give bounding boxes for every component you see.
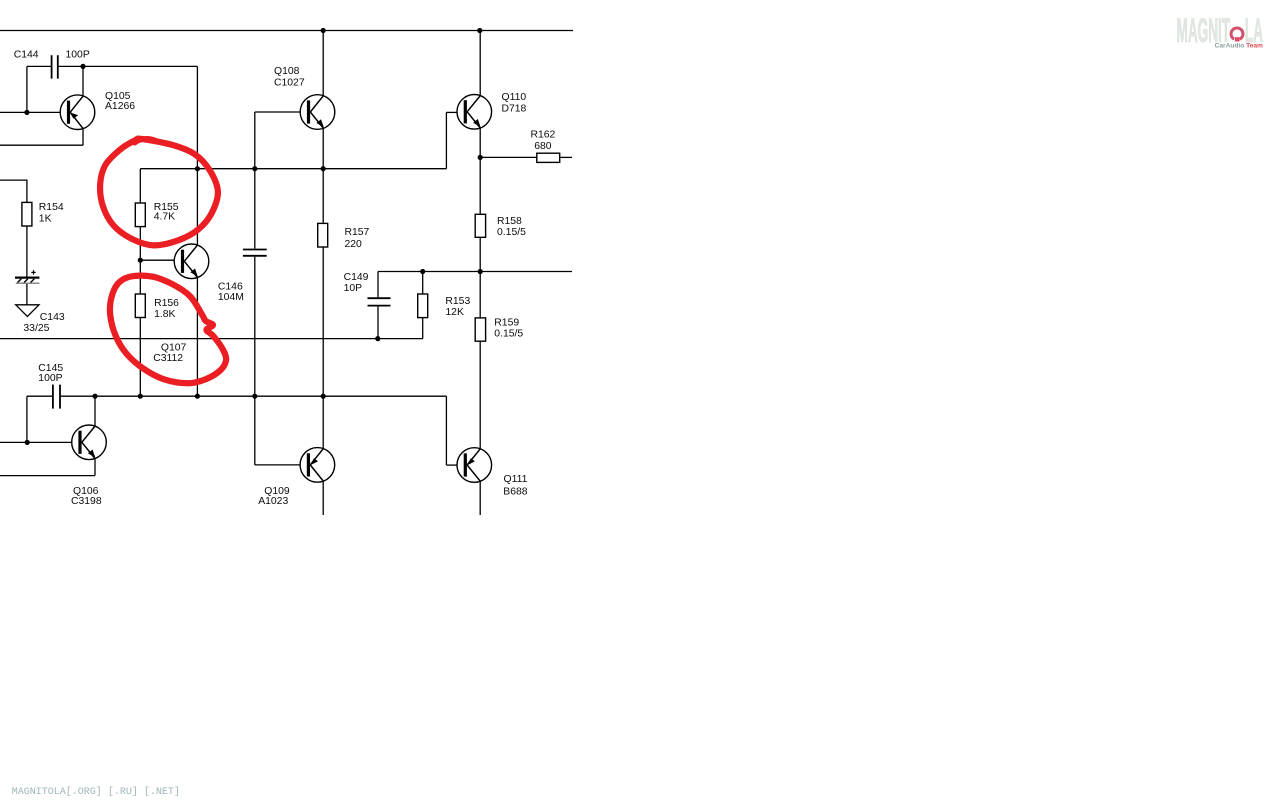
ground symbol (16, 305, 39, 317)
junction top rail at Q108 (321, 28, 326, 33)
svg-text:R154: R154 (39, 202, 64, 213)
transistor Q105 (60, 95, 95, 130)
svg-text:R153: R153 (445, 296, 470, 307)
junction H8 at R153 (420, 269, 425, 274)
wire top supply rail H1 (0, 30, 573, 32)
capacitor C149 (368, 298, 391, 305)
svg-text:R159: R159 (494, 318, 519, 329)
junction lower bus at Q106 collector (92, 394, 97, 399)
wire Q109 base vertical (254, 396, 256, 465)
wire Q108 emitter to R157 (322, 128, 324, 223)
wire R153 bottom vertical (422, 318, 424, 339)
transistor Q109 (300, 448, 335, 483)
svg-text:33/25: 33/25 (23, 323, 49, 334)
wire long horizontal H10 (0, 338, 423, 340)
logo power ring bar (1235, 37, 1240, 41)
wire Q105 collector bottom horizontal (0, 144, 83, 146)
svg-text:0.15/5: 0.15/5 (497, 227, 526, 238)
transistor Q107 (174, 244, 209, 279)
svg-text:680: 680 (534, 141, 552, 152)
wire Q105 base horizontal (0, 111, 60, 113)
svg-text:R157: R157 (345, 227, 370, 238)
junction H6 at Q108 emitter (321, 166, 326, 171)
junction H8 at R158 R159 (478, 269, 483, 274)
resistor R157 (318, 223, 328, 247)
wire Q106 emitter bottom horizontal (0, 475, 95, 477)
svg-text:A1023: A1023 (258, 496, 288, 507)
svg-text:12K: 12K (445, 307, 464, 318)
wire Q106 collector up (94, 396, 96, 426)
svg-text:220: 220 (345, 239, 363, 250)
svg-text:10P: 10P (344, 283, 363, 294)
wire C149 bottom vertical (377, 306, 379, 338)
wire C145 left segment (27, 395, 53, 397)
resistor R153 (418, 294, 428, 318)
wire Q111 collector stub down (479, 481, 481, 515)
annotation red circle around R155 (100, 139, 218, 246)
annotation red circle around R156 Q107 (110, 276, 226, 384)
wire Q110 emitter to R158 (479, 128, 481, 214)
capacitor C143 electrolytic plus sign (31, 270, 35, 274)
svg-text:104M: 104M (218, 292, 244, 303)
junction lower bus at C146 (252, 394, 257, 399)
wire R155 bottom to R156 top (139, 227, 141, 294)
logo MAGNITOLA wordmark (1177, 13, 1263, 50)
junction top rail at Q110 (477, 28, 482, 33)
svg-text:1K: 1K (39, 214, 52, 225)
resistor R159 (475, 318, 485, 341)
wire vertical x197 to Q107 collector (196, 66, 198, 245)
transistor Q108 (300, 95, 335, 130)
svg-text:CarAudio Team: CarAudio Team (1215, 42, 1263, 49)
wire C149 top vertical (377, 272, 379, 298)
wire Q105 emitter up (82, 66, 84, 96)
svg-text:1.8K: 1.8K (154, 309, 175, 320)
resistor R162 (537, 153, 560, 162)
svg-text:C146: C146 (218, 281, 243, 292)
junction H6 at C146 (252, 166, 257, 171)
junction H6 at x197 (195, 166, 200, 171)
wire R159 bottom to Q111 emitter (479, 341, 481, 449)
resistor R155 (135, 203, 145, 227)
wire Q111 base stub (446, 464, 457, 466)
wire lower bus H11 (60, 395, 446, 397)
svg-text:C143: C143 (40, 312, 65, 323)
wire output horizontal H8 (378, 271, 572, 273)
wire Q108 collector up (322, 31, 324, 96)
wire C146 bottom vertical (254, 257, 256, 397)
wire R156 bottom vertical (139, 318, 141, 397)
wire Q108 base vertical down to bus (254, 112, 256, 169)
svg-text:R162: R162 (531, 130, 556, 141)
junction Q106 base node (25, 440, 30, 445)
svg-text:100P: 100P (38, 373, 62, 384)
wire mid horizontal bus H6 (140, 168, 446, 170)
logo power ring O (1231, 28, 1243, 39)
svg-text:Q108: Q108 (274, 66, 300, 77)
wire R154 top horizontal (0, 179, 28, 181)
svg-text:C1027: C1027 (274, 78, 305, 89)
transistor Q106 (72, 425, 107, 460)
junction lower bus at Q107 emitter (195, 394, 200, 399)
transistor Q110 (457, 95, 492, 130)
svg-text:R158: R158 (497, 216, 522, 227)
svg-text:4.7K: 4.7K (154, 212, 175, 223)
svg-text:Q110: Q110 (502, 92, 527, 103)
wire C145 node down to Q106 base (26, 396, 28, 442)
wire Q107 emitter down (196, 278, 198, 397)
wire R157 bottom vertical (322, 247, 324, 396)
wire Q111 base vertical (445, 396, 447, 465)
svg-text:Q111: Q111 (504, 474, 528, 485)
capacitor C143 top plate (15, 277, 39, 279)
junction Q110 emitter R162 node (478, 155, 483, 160)
wire Q106 emitter down (94, 458, 96, 475)
wire Q108 base horizontal (255, 111, 301, 113)
wire Q105 collector down (82, 129, 84, 146)
wire C143 to ground (26, 284, 28, 305)
wire C144 left segment (27, 65, 52, 67)
wire R155 top vertical (139, 169, 141, 203)
svg-text:C3112: C3112 (153, 353, 183, 364)
svg-text:R156: R156 (154, 298, 179, 309)
capacitor C145 (53, 385, 60, 409)
junction lower bus at R156 (138, 394, 143, 399)
wire Q109 collector stub down (322, 481, 324, 515)
wire R162 right segment (560, 156, 572, 158)
wire R158 bottom to R159 top (479, 237, 481, 318)
junction Q105 base node (24, 110, 29, 115)
capacitor C143 hatched bottom plate (18, 279, 35, 283)
resistor R154 (22, 202, 32, 226)
transistor Q111 (457, 448, 492, 483)
wire C144 left vertical to Q105 base (26, 66, 28, 112)
svg-text:MAGNITOLA[.ORG] [.RU] [.NET]: MAGNITOLA[.ORG] [.RU] [.NET] (12, 786, 180, 798)
svg-text:B688: B688 (503, 487, 527, 498)
wire Q110 base stub (446, 111, 457, 113)
junction C144 right node (80, 64, 85, 69)
svg-text:0.15/5: 0.15/5 (494, 329, 523, 340)
wire C144 right segment to vertical (58, 65, 198, 67)
wire Q110 base vertical (445, 112, 447, 168)
svg-text:A1266: A1266 (105, 101, 135, 112)
wire Q109 emitter up (322, 396, 324, 449)
wire Q110 collector up (479, 31, 481, 96)
svg-text:C144: C144 (14, 50, 39, 61)
wire Q106 base horizontal (0, 441, 72, 443)
capacitor C144 (52, 55, 58, 78)
wire R162 left segment from Q110 emitter node (480, 156, 537, 158)
wire Q107 base stub (140, 259, 174, 261)
svg-text:C3198: C3198 (71, 496, 102, 507)
wire R154 bottom to C143 (26, 226, 28, 277)
resistor R158 (475, 214, 485, 237)
svg-text:Q107: Q107 (161, 343, 187, 354)
wire R154 top stub (26, 180, 28, 202)
svg-text:D718: D718 (502, 104, 527, 115)
svg-text:C149: C149 (344, 272, 369, 283)
wire Q109 base stub (255, 464, 300, 466)
junction lower bus at Q109 (321, 394, 326, 399)
wire R153 top vertical (422, 272, 424, 295)
resistor R156 (135, 294, 145, 318)
wire C146 top vertical (254, 169, 256, 249)
junction H10 at C149 (375, 336, 380, 341)
svg-text:100P: 100P (66, 50, 90, 61)
junction Q107 base node (138, 258, 143, 263)
capacitor C146 (243, 250, 267, 256)
